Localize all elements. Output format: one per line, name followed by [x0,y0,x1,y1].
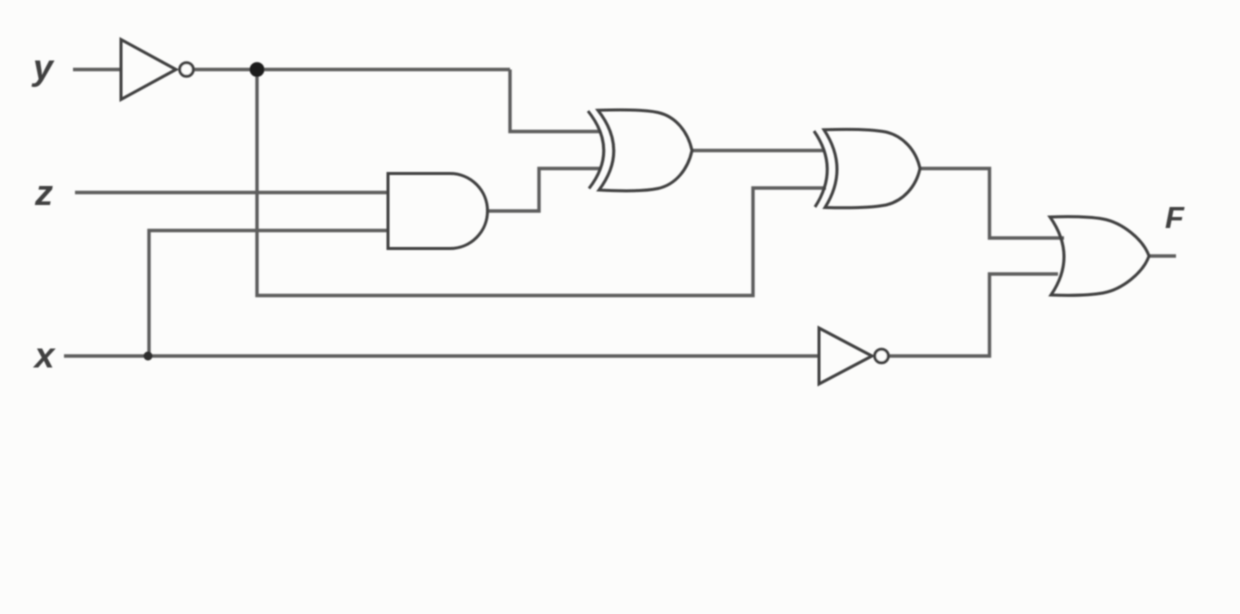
svg-text:F: F [1165,200,1185,235]
svg-text:z: z [34,172,53,213]
svg-text:x: x [33,334,57,375]
svg-text:y: y [31,47,55,88]
